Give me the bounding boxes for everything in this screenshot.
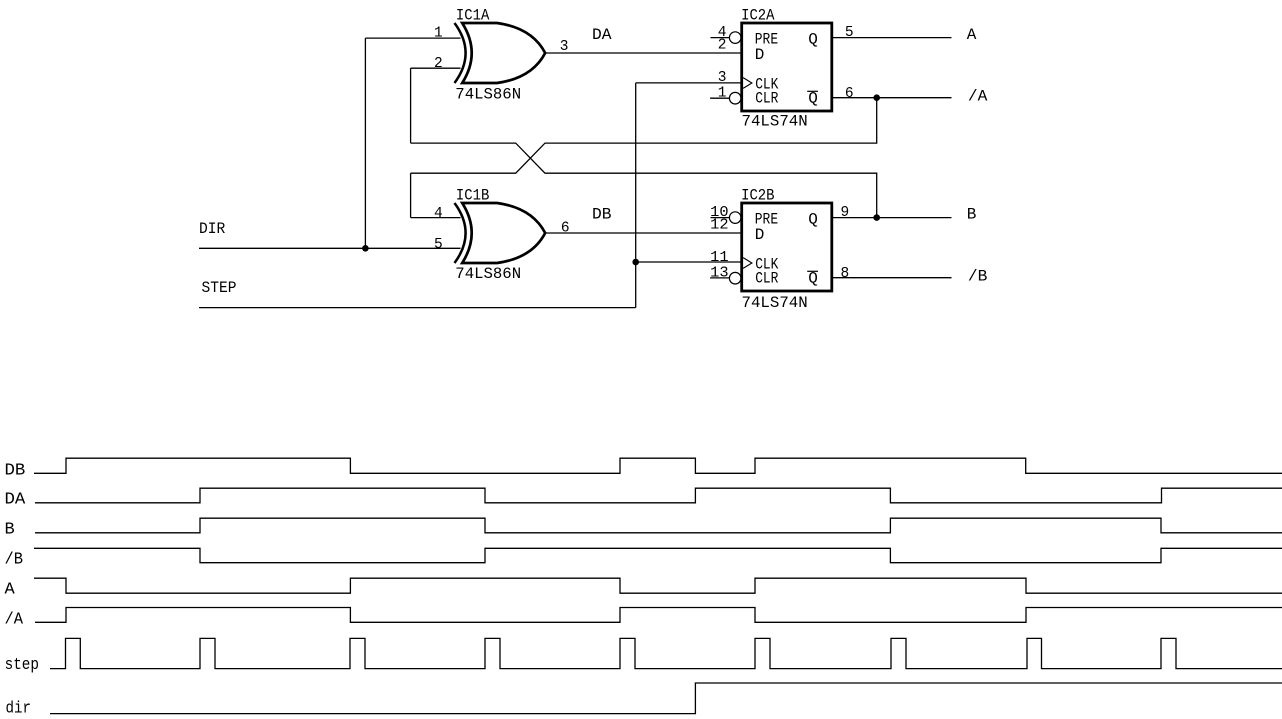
svg-text:/A: /A [5, 610, 24, 629]
wire IC1B pin4 [411, 217, 461, 219]
xor-gate IC1B body [462, 203, 545, 263]
IC2B PRE inversion bubble [729, 212, 741, 224]
wire STEP net horizontal [199, 307, 636, 309]
xor-gate IC1A body [462, 23, 545, 83]
flip-flop IC2B 74LS74N box [742, 203, 832, 291]
wire IC1A pin2 [411, 67, 461, 69]
waveform DB [34, 458, 1282, 473]
xor-gate IC1A input-side arc [455, 23, 466, 83]
svg-text:13: 13 [710, 266, 728, 282]
svg-text:3: 3 [718, 70, 727, 86]
svg-text:1: 1 [718, 86, 727, 102]
svg-text:2: 2 [718, 38, 727, 54]
svg-text:DB: DB [592, 206, 612, 224]
svg-text:9: 9 [841, 205, 850, 221]
waveform /A [35, 608, 1282, 623]
svg-text:8: 8 [841, 266, 850, 282]
svg-text:12: 12 [710, 218, 728, 234]
svg-text:CLR: CLR [755, 269, 779, 287]
wire DIR vertical riser [364, 38, 366, 248]
svg-text:D: D [755, 46, 765, 64]
wire DIR net to IC1B pin5 [199, 247, 461, 249]
wire DA net: IC1A out to IC2A D [545, 52, 742, 54]
svg-text:Q: Q [808, 89, 818, 107]
svg-text:11: 11 [710, 250, 728, 266]
wire IC2A CLK pin3 wire [636, 82, 742, 84]
svg-text:A: A [5, 580, 16, 599]
IC2A Qbar overbar [807, 90, 818, 92]
svg-text:/B: /B [968, 268, 988, 286]
wire B output wire pin9 [832, 217, 952, 219]
svg-text:74LS74N: 74LS74N [742, 294, 808, 312]
svg-text:Q: Q [808, 269, 818, 287]
svg-text:A: A [967, 26, 977, 44]
waveform DA [35, 488, 1282, 503]
IC2A CLR inversion bubble [729, 92, 741, 104]
junction DIR [362, 245, 369, 252]
svg-text:DA: DA [592, 26, 612, 44]
xor-gate IC1B input-side arc [455, 203, 466, 263]
svg-text:CLR: CLR [755, 89, 779, 107]
svg-text:D: D [755, 226, 765, 244]
svg-text:IC1B: IC1B [456, 187, 489, 205]
waveform step [50, 638, 1282, 668]
svg-text:74LS86N: 74LS86N [455, 265, 521, 283]
waveform dir [50, 683, 1282, 714]
junction B feedback [873, 214, 880, 221]
wire STEP vertical riser [635, 83, 637, 308]
IC2B CLK edge triangle [743, 258, 752, 269]
svg-text:IC1A: IC1A [456, 7, 490, 25]
svg-text:B: B [967, 206, 977, 224]
junction STEP/CLK [632, 259, 639, 266]
svg-text:STEP: STEP [202, 279, 237, 297]
svg-text:1: 1 [434, 26, 443, 42]
wire pin2 vertical to crossover [410, 68, 412, 143]
svg-text:/B: /B [5, 550, 24, 569]
wire /A output wire pin6 [832, 97, 952, 99]
svg-text:6: 6 [845, 86, 854, 102]
wire A output wire pin5 [832, 37, 952, 39]
svg-text:IC2B: IC2B [741, 187, 774, 205]
svg-text:dir: dir [6, 700, 32, 719]
IC2B Qbar overbar [807, 270, 818, 272]
wire IC2A PRE stub pin4 [711, 37, 730, 39]
wire /B output wire pin8 [832, 277, 952, 279]
svg-text:2: 2 [434, 56, 443, 72]
svg-text:74LS86N: 74LS86N [455, 85, 521, 103]
svg-text:B: B [5, 520, 15, 539]
svg-text:DB: DB [5, 461, 26, 480]
IC2A PRE inversion bubble [729, 32, 741, 44]
wire crossover: pin2 to B feedback [411, 143, 877, 218]
waveform A [34, 578, 1282, 593]
svg-text:6: 6 [561, 221, 570, 237]
svg-text:Q: Q [808, 31, 818, 49]
wire DB net: IC1B out to IC2B D [545, 232, 742, 234]
wire crossover: pin4 to /A feedback [411, 98, 877, 174]
IC2A CLK edge triangle [743, 78, 752, 89]
svg-text:step: step [5, 656, 39, 675]
svg-text:IC2A: IC2A [741, 7, 775, 25]
svg-text:74LS74N: 74LS74N [742, 112, 808, 130]
wire IC2B CLK pin11 wire [636, 261, 742, 263]
svg-text:Q: Q [808, 211, 818, 229]
IC2B CLR inversion bubble [729, 272, 741, 284]
svg-text:5: 5 [434, 237, 443, 253]
svg-text:DA: DA [5, 490, 27, 509]
wire IC2B PRE stub pin10 [711, 217, 730, 219]
svg-text:5: 5 [845, 25, 854, 41]
svg-text:/A: /A [968, 88, 988, 106]
junction /A feedback [873, 94, 880, 101]
waveform B [35, 518, 1282, 533]
waveform /B [34, 548, 1282, 562]
flip-flop IC2A 74LS74N box [742, 23, 832, 111]
wire IC1A pin1 from DIR vertical [365, 37, 460, 39]
wire pin4 vertical from crossover [410, 173, 412, 217]
svg-text:DIR: DIR [199, 220, 226, 238]
wire IC2B CLR stub pin13 [710, 277, 729, 279]
wire IC2A CLR stub pin1 [710, 97, 729, 99]
svg-text:4: 4 [434, 206, 443, 222]
